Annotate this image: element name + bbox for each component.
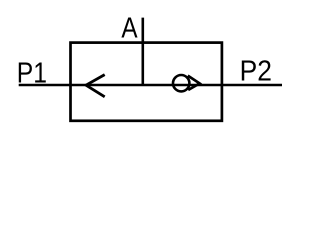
valve body box [71,43,222,121]
wire main line P1 to P2 [19,84,282,87]
svg-text:P1: P1 [17,57,47,89]
wire port A vertical [142,18,145,85]
arrowhead right at circle [188,76,200,90]
svg-text:A: A [121,12,138,44]
svg-text:P2: P2 [240,56,272,88]
arrowhead left (flow toward P1) [86,75,105,97]
check valve ball circle [173,75,189,91]
